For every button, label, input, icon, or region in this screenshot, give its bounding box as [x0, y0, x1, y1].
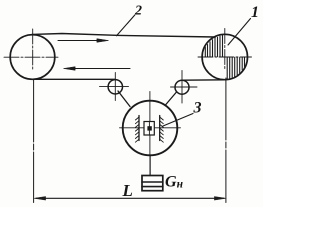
belt segment idler-left to take-up drum: [118, 91, 130, 107]
leader line for label 2: [117, 15, 135, 36]
belt direction arrow (lower, leftward): [64, 67, 131, 71]
drive drum horizontal center line: [198, 56, 252, 58]
weight Gn inner line lower: [142, 186, 163, 188]
idler right horizontal center line: [171, 86, 198, 88]
left guide bar: [138, 116, 140, 141]
weight Gn inner line upper: [142, 181, 163, 183]
belt 2 top run: [32, 34, 215, 38]
idler pulley right: [175, 80, 189, 94]
take-up drum vertical center line: [149, 92, 151, 157]
dimension line L: [36, 197, 224, 199]
left guide hatching: [135, 117, 139, 142]
svg-text:3: 3: [193, 100, 202, 117]
drive drum hatch upper-left quadrant: [205, 35, 222, 56]
right guide bar: [159, 116, 161, 141]
slider center pin line: [148, 122, 150, 136]
dimension arrow left: [34, 197, 46, 201]
weight hanger rod: [149, 156, 151, 176]
idler right vertical center line: [181, 71, 183, 104]
drive drum vertical center line: [224, 29, 226, 71]
leader line for label 3: [163, 114, 193, 127]
weight Gn box: [142, 176, 163, 191]
drive drum hatch lower-right quadrant: [227, 58, 244, 80]
drive drum 1: [202, 34, 247, 79]
belt direction arrow (top, rightward): [58, 39, 109, 43]
svg-text:2: 2: [134, 4, 142, 19]
belt lower run right segment: [182, 79, 226, 81]
svg-text:L: L: [122, 181, 133, 200]
leader line for label 1: [228, 19, 251, 46]
slider pivot square: [147, 126, 151, 130]
idler pulley left: [108, 80, 122, 94]
idler left horizontal center line: [100, 86, 129, 88]
belt lower run left segment: [32, 78, 115, 80]
take-up drum horizontal center line: [120, 127, 181, 129]
svg-text:1: 1: [251, 4, 259, 21]
dimension arrow right: [215, 197, 227, 201]
tail pulley horizontal center line: [4, 56, 58, 58]
svg-text:Gн: Gн: [165, 174, 184, 191]
idler left vertical center line: [114, 73, 116, 101]
take-up slider block: [144, 122, 154, 136]
right extension line: [225, 78, 227, 203]
tail pulley vertical center line: [32, 29, 34, 70]
belt segment idler-right to take-up drum: [165, 92, 177, 106]
right guide hatching: [160, 117, 164, 142]
take-up drum 3: [123, 101, 178, 156]
left extension line: [33, 80, 35, 203]
tail pulley (left drum): [10, 35, 55, 80]
